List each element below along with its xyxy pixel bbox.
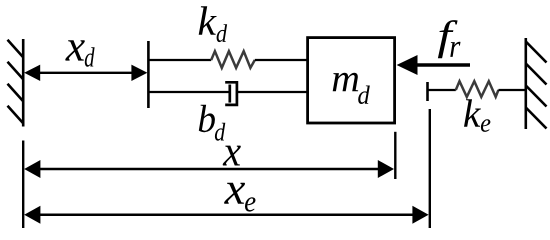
dimension arrow x [24,160,394,178]
spring ke [428,81,526,101]
node bar xd attachment [147,41,150,108]
label xd [65,40,94,67]
dimension arrow xe [24,206,428,224]
label bd [199,105,225,141]
spring kd [149,51,307,68]
mass md [308,38,395,123]
label xe [224,183,255,212]
projection line under mass [394,132,396,179]
force arrow fr [397,55,470,75]
label md [333,73,370,104]
dimension arrow xd [24,65,147,81]
label ke [464,99,490,132]
damper bd [149,82,307,105]
projection line left [22,141,24,229]
left wall [8,39,24,127]
projection line right xe [429,109,431,228]
label kd [199,6,227,42]
label fr [438,20,461,58]
right wall [526,38,547,129]
label x [223,146,241,166]
